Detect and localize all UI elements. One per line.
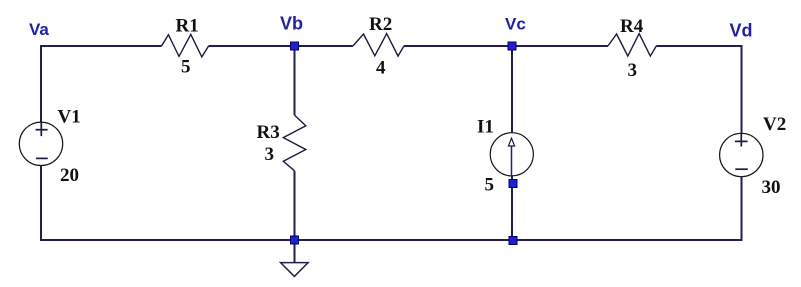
resistor R3	[283, 115, 306, 171]
voltage source V2 circle	[720, 133, 763, 176]
V2 minus bar	[735, 168, 748, 170]
resistor R4	[608, 34, 656, 57]
svg-text:5: 5	[181, 57, 191, 78]
current source I1 circle	[490, 133, 533, 176]
wire V1 bottom to bottom-left corner	[41, 165, 295, 240]
svg-text:20: 20	[60, 165, 79, 186]
voltage source V1 circle	[19, 122, 62, 165]
svg-text:30: 30	[762, 177, 781, 198]
svg-text:I1: I1	[477, 117, 494, 138]
V1 plus stub wire	[40, 123, 42, 137]
node square below I1	[509, 180, 517, 188]
resistor R1	[162, 34, 209, 57]
I1 arrowhead	[508, 138, 514, 146]
wire bottom middle segment	[295, 239, 514, 241]
wire V2 bottom to bottom-right corner	[742, 177, 743, 241]
svg-text:Vd: Vd	[730, 21, 753, 41]
svg-text:4: 4	[376, 58, 386, 79]
svg-text:R3: R3	[257, 122, 280, 143]
I1 arrow shaft	[511, 146, 513, 176]
svg-text:5: 5	[485, 175, 495, 196]
svg-text:R1: R1	[176, 16, 199, 37]
svg-text:Vb: Vb	[280, 14, 303, 34]
svg-text:3: 3	[628, 60, 638, 81]
V2 plus crossbar	[735, 140, 748, 142]
resistor R2	[353, 34, 404, 57]
node square bottom below I1	[509, 237, 517, 245]
svg-text:Va: Va	[29, 20, 49, 39]
node Vb junction square	[291, 42, 299, 50]
wire I1 to bottom node	[511, 176, 513, 241]
wire Vb to R2	[295, 45, 353, 47]
wire Vc down to I1	[511, 46, 513, 133]
wire Vc to R4	[512, 45, 608, 47]
wire top-left Va corner to R1	[41, 46, 162, 123]
node ground junction square below R3	[291, 236, 299, 244]
svg-text:V1: V1	[58, 107, 81, 128]
svg-text:R4: R4	[620, 16, 644, 37]
V1 plus crossbar	[36, 129, 48, 131]
wire Vb down to R3	[294, 46, 296, 115]
wire R1 to Vb	[209, 45, 295, 47]
wire R4 to Vd corner	[656, 46, 741, 134]
node Vc junction square	[508, 42, 516, 50]
wire R3 to bottom node	[294, 171, 296, 240]
svg-text:3: 3	[265, 144, 275, 165]
svg-text:Vc: Vc	[505, 15, 526, 34]
wire R2 to Vc	[404, 45, 512, 47]
V1 minus bar	[36, 157, 48, 159]
wire bottom right segment	[513, 239, 742, 241]
wire ground stub	[294, 240, 296, 263]
ground symbol triangle	[281, 263, 309, 277]
svg-text:R2: R2	[369, 14, 392, 35]
svg-text:V2: V2	[763, 114, 786, 135]
V2 plus stub wire	[740, 133, 742, 146]
